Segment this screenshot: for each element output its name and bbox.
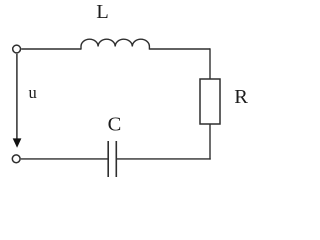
wire left vertical shaft of source arrow: [16, 54, 18, 140]
capacitor C right plate: [115, 141, 117, 177]
wire small jog down from inductor: [148, 47, 150, 50]
svg-text:C: C: [108, 113, 122, 135]
svg-text:u: u: [29, 83, 37, 102]
resistor R (box): [200, 79, 220, 124]
wire right vertical down to resistor: [209, 48, 211, 79]
svg-text:R: R: [234, 86, 248, 108]
wire top horizontal left segment: [21, 48, 81, 50]
wire bottom horizontal right segment: [116, 158, 210, 160]
inductor L (4 arcs): [81, 39, 149, 46]
wire small jog up into inductor: [80, 47, 82, 50]
terminal (top-left, open circle): [13, 45, 21, 53]
terminal (bottom-left, open circle): [12, 155, 20, 163]
arrowhead of source u (points down): [13, 138, 22, 147]
svg-text:L: L: [96, 1, 109, 23]
capacitor C left plate: [107, 141, 109, 177]
wire top horizontal right segment: [149, 48, 210, 50]
wire bottom horizontal left segment: [21, 158, 108, 160]
wire right vertical below resistor: [209, 124, 211, 160]
